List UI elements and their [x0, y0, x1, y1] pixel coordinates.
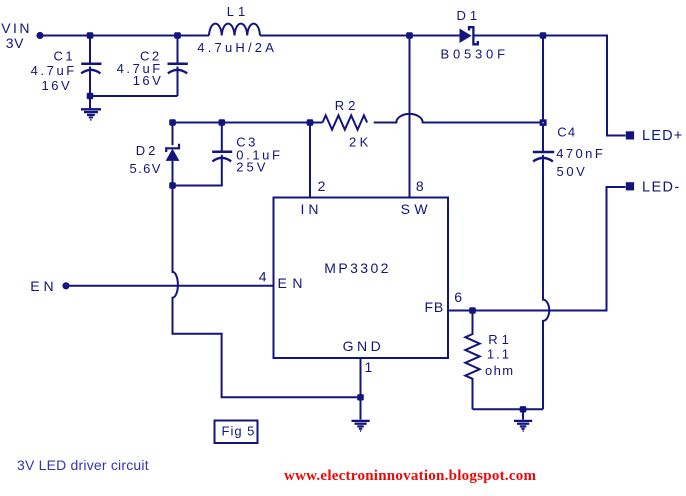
diode D1 triangle — [460, 29, 472, 44]
junction SW/top rail — [406, 32, 413, 38]
wire: R2 right with crossover hump — [374, 114, 543, 123]
Fig 5 box — [215, 421, 258, 444]
svg-text:SW: SW — [401, 201, 432, 217]
junction ground under R1 — [520, 406, 527, 412]
ground: under GND pin — [352, 420, 370, 422]
wire: VIN top rail left segment — [40, 35, 209, 37]
wire: top rail L1 to D1 — [260, 35, 460, 37]
svg-text:2: 2 — [318, 178, 326, 194]
svg-text:C1: C1 — [54, 49, 76, 64]
node LED- terminal square — [626, 182, 634, 190]
wire: GND pin line — [360, 358, 362, 420]
wire: FB to LED- — [448, 187, 626, 311]
svg-text:EN: EN — [30, 278, 57, 294]
svg-text:25V: 25V — [236, 160, 268, 175]
zener D2 triangle — [166, 149, 180, 161]
inductor L1 — [209, 24, 260, 36]
svg-text:Fig 5: Fig 5 — [222, 424, 256, 439]
svg-text:L1: L1 — [227, 4, 249, 19]
svg-text:R1: R1 — [488, 332, 513, 347]
svg-text:MP3302: MP3302 — [324, 260, 391, 276]
svg-text:LED+: LED+ — [642, 128, 683, 144]
junction GND rail — [357, 394, 364, 400]
svg-text:R2: R2 — [335, 98, 360, 113]
node VIN terminal dot — [36, 32, 43, 39]
svg-text:GND: GND — [343, 338, 385, 354]
junction IN pin — [307, 119, 314, 125]
svg-text:4.7uH/2A: 4.7uH/2A — [197, 40, 277, 55]
junction D2 bottom — [169, 182, 176, 188]
junction C3 top — [219, 119, 226, 125]
svg-text:16V: 16V — [133, 73, 164, 88]
svg-text:D2: D2 — [136, 143, 159, 158]
diode D1 (schottky bar) — [469, 27, 478, 44]
wire: mid bus D2 to R2 with hop over SW line — [173, 122, 323, 124]
wire: SW pin line — [409, 36, 411, 198]
svg-text:1.1: 1.1 — [487, 347, 511, 362]
ground: under R1/C4 rail — [522, 409, 524, 419]
capacitor C2 — [177, 36, 179, 66]
junction C1 bottom — [87, 93, 94, 99]
junction R2/C4 — [540, 119, 547, 126]
svg-text:1: 1 — [365, 359, 373, 375]
svg-text:LED-: LED- — [642, 180, 681, 196]
svg-text:D1: D1 — [457, 8, 482, 23]
svg-text:EN: EN — [278, 275, 308, 291]
svg-text:2K: 2K — [349, 134, 372, 149]
zener diode D2 — [172, 123, 174, 146]
node LED+ terminal square — [626, 131, 634, 139]
junction C1 top — [87, 32, 94, 38]
capacitor C1 — [89, 36, 91, 66]
svg-text:3V: 3V — [6, 35, 24, 51]
svg-text:IN: IN — [301, 201, 323, 217]
resistor R2 — [323, 115, 368, 129]
svg-text:B0530F: B0530F — [441, 46, 509, 61]
junction C2 top — [174, 32, 181, 38]
svg-text:50V: 50V — [557, 164, 588, 179]
svg-text:16V: 16V — [42, 78, 73, 93]
resistor R1 — [465, 311, 479, 410]
svg-text:4.7uF: 4.7uF — [31, 63, 77, 78]
svg-text:470nF: 470nF — [556, 146, 605, 161]
wire: R1 bottom to C4 bottom — [473, 408, 544, 410]
svg-text:C4: C4 — [557, 125, 576, 140]
junction C4 top rail — [540, 32, 547, 38]
wire: EN input — [70, 285, 274, 287]
svg-text:4: 4 — [259, 268, 267, 284]
wire: IN pin line — [309, 123, 311, 198]
op-amp U1 MP3302 IC body — [274, 198, 449, 359]
capacitor C3 — [221, 123, 223, 154]
wire: top rail D1 to LED+ corner — [475, 36, 626, 136]
capacitor C4 column with hop over FB wire — [542, 36, 544, 154]
svg-text:www.electroninnovation.blogspo: www.electroninnovation.blogspot.com — [284, 468, 536, 484]
junction D2 top — [169, 119, 176, 125]
svg-text:3V LED driver circuit: 3V LED driver circuit — [17, 457, 149, 473]
svg-text:VIN: VIN — [1, 20, 32, 36]
svg-text:8: 8 — [416, 178, 424, 194]
node EN terminal dot — [62, 282, 69, 289]
junction FB/R1 — [469, 307, 476, 313]
svg-text:6: 6 — [454, 289, 462, 305]
svg-text:ohm: ohm — [485, 363, 515, 378]
svg-text:5.6V: 5.6V — [130, 161, 162, 176]
svg-text:FB: FB — [425, 299, 445, 315]
wire: C1 bottom to C2 bottom — [90, 95, 178, 97]
ground: under C1 — [89, 96, 91, 109]
